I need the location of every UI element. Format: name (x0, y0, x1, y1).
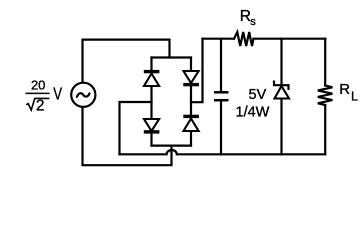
wire source-top to bridge AC1 (83, 40, 170, 82)
label radical sign (26, 98, 49, 110)
svg-text:R: R (339, 81, 350, 98)
diode D3 bottom-left (cathode bar) (144, 130, 160, 133)
wire bridge top rail (152, 56, 192, 58)
resistor RL zigzag (318, 86, 333, 106)
svg-text:20: 20 (31, 78, 45, 93)
wire zener top lead (280, 39, 282, 85)
wire source-bottom to bridge AC2 (83, 108, 172, 166)
svg-text:L: L (351, 90, 358, 104)
resistor Rs zigzag (234, 32, 254, 46)
svg-text:5V: 5V (249, 87, 267, 103)
wire left branch upper (150, 58, 152, 71)
wire RL bottom lead (324, 105, 326, 154)
diode D1 top-left (cathode bar) (144, 70, 160, 73)
zener diode DZ (cathode bar with hooks) (274, 81, 289, 91)
diode D2 top-right (triangle) (184, 71, 199, 83)
label fraction bar (26, 92, 50, 94)
wire RL top lead (324, 39, 326, 86)
wire right branch upper (190, 58, 192, 72)
wire node DC+ right (191, 39, 203, 102)
wire left branch middle (150, 86, 152, 119)
wire right branch lower (190, 131, 192, 146)
wire node DC- left (120, 102, 152, 154)
wire top rail right of Rs (254, 38, 326, 40)
diode D4 bottom-right (triangle) (184, 119, 199, 132)
wire right branch middle (190, 86, 192, 115)
diode D4 bottom-right (cathode bar) (183, 115, 199, 118)
zener diode DZ (triangle) (275, 86, 290, 99)
svg-text:2: 2 (36, 97, 45, 114)
voltage source sine symbol (77, 93, 90, 97)
wire left branch lower (150, 134, 152, 146)
svg-text:s: s (250, 16, 256, 28)
wire capacitor top lead (220, 39, 222, 92)
wire top rail left of Rs (203, 38, 235, 40)
diode D1 top-left (triangle) (144, 74, 159, 87)
wire bridge bottom rail (152, 145, 192, 147)
capacitor C bottom plate (214, 99, 229, 102)
svg-text:1/4W: 1/4W (236, 105, 270, 121)
wire zener bottom lead (280, 99, 282, 155)
wire bottom rail with hop (120, 150, 326, 154)
capacitor C top plate (214, 91, 229, 94)
diode D2 top-right (cathode bar) (183, 83, 199, 86)
diode D3 bottom-left (triangle) (144, 119, 159, 131)
voltage source VS circle (71, 83, 95, 107)
svg-text:V: V (53, 85, 62, 104)
wire capacitor bottom lead (220, 101, 222, 155)
